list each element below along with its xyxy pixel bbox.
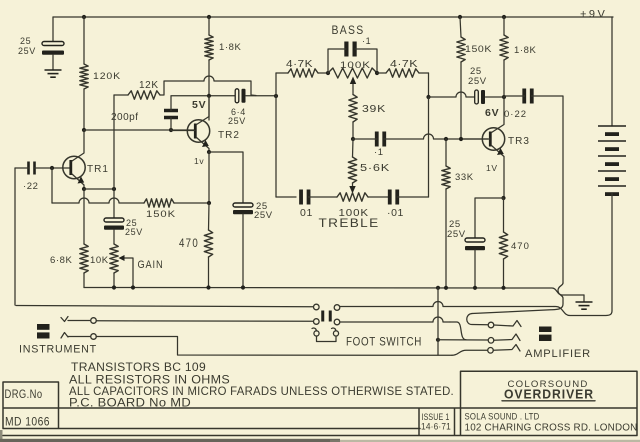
label C7 .1 [362,36,371,46]
svg-text:DRG.No: DRG.No [5,389,43,401]
svg-text:120K: 120K [93,71,121,82]
node TR2 emitter [207,150,211,154]
capacitor C9 01 treble left [301,190,309,205]
node ground gain wiper [131,285,135,289]
node TR1 collector [82,128,86,132]
label TR1 [87,164,109,175]
wire rail to R14 [503,17,505,35]
wire emitter to C12 [475,198,504,238]
switch contact 3 [488,348,494,354]
svg-text:39K: 39K [362,104,386,115]
node ground C6 [241,285,245,289]
node TR3 base junction 150K [459,137,463,141]
label 10K [90,255,109,266]
label C10 .01 [387,207,404,219]
switch terminal 2a [314,319,320,325]
svg-text:1·8K: 1·8K [514,45,537,56]
svg-text:·1: ·1 [362,36,371,46]
wire input left [15,167,29,169]
node switch ground drop [436,338,440,342]
wire C2 to TR1 base [35,167,71,169]
label FOOT SWITCH [346,337,422,349]
wire battery negative return [554,307,612,316]
capacitor C7 .1 bass [346,42,354,57]
wire treble pot to C10 [368,196,390,198]
svg-text:102 CHARING CROSS RD. LONDON: 102 CHARING CROSS RD. LONDON [465,423,638,434]
label INSTRUMENT [19,344,97,356]
wire C1 to ground [52,55,54,71]
resistor R8 4.7K [288,69,318,77]
jack J1 instrument [37,324,50,339]
wire R14 to collector node [503,60,505,97]
node TR1 emitter [82,187,86,191]
wire R11 leads [377,72,429,74]
svg-text:AMPLIFIER: AMPLIFIER [525,348,591,360]
label 14.6.71 [421,422,451,433]
label C5 6.4 [231,107,246,117]
svg-text:0·22: 0·22 [504,109,527,120]
wire C5 out [246,95,276,97]
wire +9V top supply rail [53,16,613,18]
wire R2 to ground rail [83,273,85,288]
capacitor C3 25uF 25V gain [104,218,124,230]
switch arm 2 [494,334,520,341]
node tone stack input [274,94,278,98]
wire rail to C1 [52,17,54,41]
wire 12K branch down to C3 [113,189,115,218]
node TR3 emitter junction [501,196,505,200]
wire emitter down to 6.8K [83,189,85,244]
label C1 25V [18,46,36,56]
wire tip contact to terminal 2a [96,320,313,323]
svg-text:5·6K: 5·6K [360,163,390,174]
wire TR1 base down [51,168,53,203]
svg-text:INSTRUMENT: INSTRUMENT [19,344,97,356]
label COLORSOUND [508,379,589,390]
label C1 25 [20,36,31,46]
svg-text:25V: 25V [468,76,487,87]
wire C9 to treble pot [309,196,338,198]
label C12 25V [447,229,466,240]
node ground R15 [501,286,505,290]
svg-text:470: 470 [179,238,199,250]
label C8 .1 [374,147,384,158]
label 102 CHARING CROSS RD LONDON [465,423,638,434]
node 12K bottom [112,187,116,191]
wire terminal 1b to battery line [340,302,554,307]
wire contact 2 feed [438,339,488,341]
svg-text:25: 25 [20,36,31,46]
label GAIN [138,259,164,271]
switch arm 3 [493,345,520,352]
switch arm input ring [61,333,91,339]
svg-text:1V: 1V [486,163,498,173]
label C6 25V [254,210,273,221]
wire bass cap loop [328,49,377,73]
svg-text:·1: ·1 [374,147,384,158]
svg-text:1·8K: 1·8K [219,42,242,53]
svg-text:12K: 12K [139,80,159,91]
wire collector cap feed [429,92,475,97]
wire 12K left corner [114,94,128,96]
capacitor C5 6.4uF 25V coupling [235,89,245,103]
node 200pf bottom [169,128,173,132]
label C6 25 [256,201,268,212]
resistor R14 1.8K [500,35,508,60]
wire rail to R1 [83,17,85,64]
svg-text:TREBLE: TREBLE [319,216,380,230]
wire mid node to R10 [352,139,355,157]
svg-text:5V: 5V [192,99,206,111]
label DRG.No [5,389,43,401]
wire R13 to ground [445,189,447,288]
node 33K top feed [426,95,430,99]
resistor R7 470 [204,230,212,257]
note resistors [69,373,230,387]
ground below C1 [45,70,62,77]
svg-text:25V: 25V [228,116,246,126]
label TR3 [508,136,530,147]
wire C3 to R3 [113,230,115,245]
resistor R10 5.6K [348,157,356,183]
wire C6 to ground [242,214,244,288]
svg-text:25V: 25V [18,46,36,56]
node ground switch drop [436,286,440,290]
label 6V [485,107,499,119]
svg-text:SOLA SOUND . LTD: SOLA SOUND . LTD [465,412,540,423]
arrow TR3 emitter [497,148,504,155]
wire R15 to ground [503,259,505,288]
capacitor C2 input .22 [29,162,35,175]
scan edge bottom [0,430,640,442]
svg-text:TR3: TR3 [508,136,530,147]
wire treble bottom line [276,96,296,197]
svg-text:33K: 33K [455,172,474,183]
resistor R12 150K [457,37,465,62]
resistor R3 10K gain pot [110,244,118,273]
wire TR2 collector lead [197,96,210,125]
svg-text:200pf: 200pf [111,112,139,123]
svg-text:25V: 25V [125,227,143,237]
label C11 25V [468,76,487,87]
label 6.8K [50,255,73,266]
node ground 33K [444,286,448,290]
label VR1 100K [340,60,371,71]
label R13 33K [455,172,474,183]
arrow TR1 emitter [78,177,85,184]
label MD 1066 [5,417,50,429]
wire C12 to ground [474,250,476,288]
wire TR1 emitter lead [72,174,84,189]
wire R9 to mid node [352,122,354,139]
capacitor C4 200pf [164,111,178,118]
svg-text:·01: ·01 [387,207,404,219]
wire base bias run [52,198,144,203]
wire S down to contact 2 [450,322,466,340]
capacitor C13 0.22 output [524,89,532,104]
wire 200pf top [170,96,172,111]
resistor R13 33K [442,166,450,189]
node TR3 collector [502,95,506,99]
label R8 4.7K [286,59,313,70]
label 200pf [111,112,139,123]
label C12 25 [449,219,461,230]
svg-text:TR1: TR1 [87,164,109,175]
node ground 470 TR2 [206,285,210,289]
capacitor C8 .1 treble-mid [377,132,385,147]
svg-text:+9V: +9V [580,9,607,21]
label R5 1.8K [219,42,242,53]
label R7 470 [179,238,199,250]
wire S up to contact 3 [452,350,488,355]
wire R4 to TR2 emitter node [174,202,209,204]
wire input jack line down [14,168,16,305]
wire instrument line [16,306,314,307]
label 12K [139,80,159,91]
node bass pot left [326,71,330,75]
svg-text:·22: ·22 [23,181,39,192]
capacitor C11 25uF 25V [475,90,485,104]
transistor Q3 TR3 [482,128,504,150]
node mid tone [351,137,355,141]
resistor R9 39K [349,95,357,123]
resistor R15 470 [499,232,507,259]
label ISSUE 1 [422,412,450,423]
switch terminal 2b [334,319,340,325]
switch contact input tip [91,318,97,324]
label AMPLIFIER [525,348,591,360]
wire terminal 2b run [340,317,450,322]
label R11 4.7K [390,59,418,70]
svg-text:10K: 10K [90,255,109,266]
svg-text:25V: 25V [254,210,273,221]
resistor R6 12K feedback [128,91,160,99]
wire 33K down [445,139,447,166]
label OVERDRIVER [502,387,595,402]
svg-text:150K: 150K [465,44,492,54]
wire TR1 emitter to 12K branch [84,188,114,190]
wire C10 to right rail [397,196,428,198]
resistor R5 1.8K [205,35,213,60]
label 1v TR2 emitter [194,156,204,166]
switch arm input tip [61,317,91,322]
arrow TR2 emitter [202,140,209,147]
wire rail to R5 [208,17,210,35]
wire output drop hop ground [472,283,563,314]
resistor R11 4.7K [386,69,419,77]
transistor Q2 TR2 [187,120,209,142]
wire TR2 emitter to bypass [209,152,243,203]
label R12 150K [465,44,492,54]
label +9V [580,9,607,21]
wire collector node to TR2 base [84,129,194,131]
wire 12K left down [113,95,115,189]
svg-text:FOOT SWITCH: FOOT SWITCH [346,337,422,349]
node ground 10K [112,285,116,289]
svg-text:GAIN: GAIN [138,259,164,271]
label TR2 [218,130,240,141]
resistor R2 6.8K [80,244,88,273]
label 1V TR3 [486,163,498,173]
wire 12K right to collector run [160,76,256,96]
svg-text:4·7K: 4·7K [390,59,418,70]
wire ring contact run [96,337,452,356]
wiper GAIN pot [119,255,134,288]
note transistors [71,360,206,374]
transistor Q1 TR1 [63,156,85,178]
resistor R4 150K [144,199,174,207]
wire output S to contact 1 [467,314,488,325]
wire R15 top [503,198,505,232]
switch arm 1 [494,321,521,327]
node top rail at 1.8K TR2 [207,15,211,19]
label R14 1.8K [514,45,537,56]
capacitor C12 25uF 25V emitter [465,238,485,250]
wire ground drop [437,288,439,355]
label TREBLE [319,216,380,230]
note pc board [69,396,191,410]
node TR2 collector [207,94,211,98]
switch terminal 1a [314,304,320,310]
resistor R1 120K [80,64,88,89]
label 5V [192,99,206,111]
label C5 25V [228,116,246,126]
wiper treble pot [349,183,355,194]
capacitor C14 footswitch [323,311,331,322]
wire rail to R12 [460,17,461,37]
switch contact 1 [488,322,494,328]
label SOLA SOUND LTD [465,412,540,423]
label 5.6K [360,163,390,174]
wire R7 top [208,203,211,230]
foot switch actuator [312,328,339,341]
switch contact 2 [488,338,494,344]
node top rail at 150K [458,15,462,19]
label C9 01 [300,207,313,219]
wiper bass pot [350,77,356,95]
wire R12 to TR3 base [460,62,462,139]
wire mid node to C8 [353,138,377,140]
wire collector to C13 [504,95,525,97]
svg-text:MD 1066: MD 1066 [5,417,50,429]
wire R3 to ground rail [113,273,115,288]
node bass pot right [375,71,379,75]
node emitter/150K junction [207,201,211,205]
svg-text:470: 470 [511,241,530,252]
wire tone input up to 4.7K [275,73,277,96]
ground symbol main [576,295,593,309]
wire TR2 collector node run [171,95,236,97]
node top rail at 1.8K TR3 [502,15,506,19]
resistor VR1 100K bass pot [328,68,377,78]
wire C13 to output drop [532,96,564,283]
wire TR3 base lead [463,138,490,140]
titleblock frame [3,371,637,435]
label 120K [93,71,121,82]
label C11 25 [470,66,482,77]
wire TR3 collector lead [492,97,505,133]
note capacitors [69,384,454,398]
label .22 [23,181,39,192]
capacitor C1 25uF 25V supply filter [42,42,64,55]
wire C11 to TR3 collector [486,96,505,98]
svg-text:14·6·71: 14·6·71 [421,422,451,433]
switch contact input ring [91,334,97,340]
wire C8 to TR3 base run [384,134,488,139]
svg-text:1v: 1v [194,156,204,166]
wire ground rail [84,288,584,296]
svg-text:TR2: TR2 [218,130,240,141]
label VR2 100K [339,207,370,219]
label 39K [362,104,386,115]
svg-text:01: 01 [300,207,313,219]
capacitor C6 25uF 25V bypass [233,203,253,214]
switch terminal 1b [334,305,340,311]
label C3 25V [125,227,143,237]
jack J2 amplifier [539,327,552,342]
node TR1 base [50,166,54,170]
wire R5 to TR2 collector [208,60,210,120]
capacitor C10 .01 treble right [390,190,398,205]
svg-text:6·8K: 6·8K [50,255,73,266]
wire TR3 emitter lead [492,146,505,199]
wire TR2 emitter down [208,152,210,203]
wire TR2 emitter lead [197,138,210,153]
node top rail at 120K [82,15,86,19]
resistor VR2 100K treble pot [337,193,368,201]
label R15 470 [511,241,530,252]
wire R7 to ground [208,257,210,288]
svg-text:BASS: BASS [332,23,365,37]
battery B1 9V [598,17,626,311]
label 150K [146,209,176,220]
label BASS [332,23,365,37]
svg-text:4·7K: 4·7K [286,59,313,70]
wire R8 leads [276,72,328,74]
label C3 25 [126,218,137,228]
svg-text:100K: 100K [340,60,371,71]
wire TR2 base lead [171,130,195,132]
svg-text:OVERDRIVER: OVERDRIVER [504,387,594,402]
node ground C12 [473,286,477,290]
wire down treble right [428,97,430,197]
node TR3 base junction 33K [444,137,448,141]
wire 200pf bottom [170,118,172,131]
svg-text:25V: 25V [447,229,466,240]
svg-text:6V: 6V [485,107,499,119]
wire TR1 collector lead [72,130,84,161]
label C13 0.22 [504,109,527,120]
svg-text:150K: 150K [146,209,176,220]
wire 4.7K right down [428,73,430,97]
wire R1 to TR1 collector node [83,89,85,130]
